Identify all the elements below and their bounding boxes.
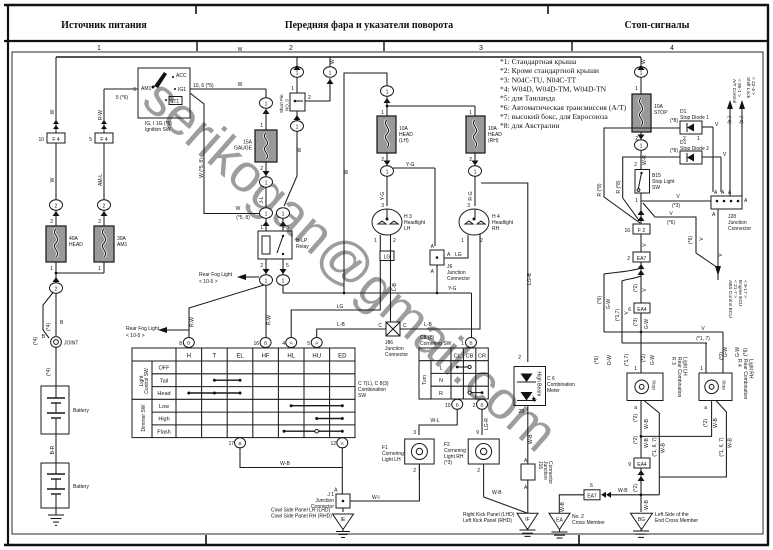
wire EA4 to G-W junction [633,313,650,373]
svg-text:CB: CB [466,354,474,360]
wire W from bus to fuse 1F4 [50,57,59,133]
svg-text:1: 1 [260,123,263,129]
C8 contacts L row [456,365,471,368]
battery 2 [41,463,89,508]
H4 headlight RH feed [467,176,475,209]
LG-B wire to C6 [481,183,533,362]
svg-text:EA: EA [556,518,563,524]
svg-text:STOP: STOP [654,110,668,116]
wire short pin to relay pin3 [284,131,303,206]
stop diode 2 [670,140,727,192]
ground EA no.2 cross member [549,513,605,538]
C8 bottom pin B10 [445,399,463,409]
svg-text:4: 4 [670,45,674,52]
svg-text:2: 2 [518,355,521,361]
svg-text:(*2): (*2) [633,414,639,422]
svg-text:W-B: W-B [528,434,534,444]
drop from bus to node 1 (x297) [291,57,304,77]
svg-text:Rear Fog Light: Rear Fog Light [199,272,233,278]
table bottom pin A12 [330,438,347,448]
svg-text:EA4: EA4 [637,462,647,468]
svg-text:(*6): (*6) [743,348,749,356]
svg-text:2: 2 [381,157,384,163]
svg-text:9: 9 [476,430,479,436]
connector 1F4 (5) [89,133,113,143]
table top pin A4 [282,338,296,348]
svg-text:1: 1 [700,366,703,372]
fuse 10A HEAD (LH) [377,116,413,166]
wire to EA7 [641,234,648,252]
wire from IGN SW AM1 down [98,89,138,133]
svg-text:< 10-5 >: < 10-5 > [126,333,145,339]
svg-text:1: 1 [98,266,101,272]
svg-text:(*1, 6, 7): (*1, 6, 7) [719,437,725,457]
svg-text:A: A [290,341,293,346]
svg-text:GAUGE: GAUGE [234,146,253,152]
watermark serikogan@gmail.com [132,68,568,463]
B15 stop light SW [635,170,675,205]
svg-text:Передняя фара и указатели пово: Передняя фара и указатели поворота [285,20,453,31]
svg-text:L-B: L-B [337,322,345,328]
svg-text:AM-L: AM-L [98,174,104,186]
svg-text:8: 8 [179,341,182,347]
svg-text:HU: HU [312,354,321,360]
svg-text:Y-G: Y-G [406,162,415,168]
svg-text:H: H [187,354,191,360]
svg-text:ACC: ACC [176,73,187,79]
svg-text:Low: Low [159,404,169,410]
svg-text:W: W [297,147,303,152]
svg-text:3: 3 [479,45,483,52]
svg-text:Battery: Battery [73,408,89,414]
svg-text:(*4): (*4) [46,368,52,376]
svg-text:W-L: W-L [430,418,439,424]
svg-text:1: 1 [635,86,638,92]
svg-text:*8: для Австралии: *8: для Австралии [500,121,560,130]
svg-text:ST1: ST1 [170,99,179,105]
svg-text:W-B: W-B [644,419,650,429]
drop from bus to stop fuse [635,57,648,94]
svg-text:1: 1 [640,71,643,77]
svg-text:G-W: G-W [606,299,612,310]
JOINT [51,337,79,348]
svg-text:Стоп-сигналы: Стоп-сигналы [625,20,690,31]
svg-text:1: 1 [265,181,268,187]
svg-text:Head: Head [157,391,170,397]
svg-text:< 22-4 >: < 22-4 > [750,77,756,95]
F1 cornering light LH [382,439,434,480]
svg-text:Short Pin: Short Pin [279,94,284,113]
svg-text:*6: Автоматическая трансмиссия: *6: Автоматическая трансмиссия (А/Т) [500,103,627,112]
svg-text:(*4): (*4) [33,337,39,345]
connector EA7 (bottom) [584,483,659,500]
R4 ground chain to EA4 [640,401,719,438]
svg-text:R 4: R 4 [736,359,742,367]
table top pin A5 [307,338,322,348]
svg-text:ED: ED [338,354,347,360]
svg-text:R: R [439,391,443,397]
svg-text:6: 6 [628,307,631,313]
svg-text:C: C [378,323,382,329]
svg-text:JOINT: JOINT [64,341,78,347]
G-W horizontal to R4 [604,326,729,373]
svg-text:(*3): (*3) [444,460,452,466]
R4 aux ground path [659,401,733,478]
junction connector J6 [430,244,470,282]
wire F1 to J1 connector W-I [350,464,419,501]
svg-text:(*2): (*2) [703,419,709,427]
svg-text:SW: SW [358,393,366,399]
svg-text:3: 3 [381,203,384,209]
svg-text:IF: IF [525,517,529,523]
wire gauge to relay node [259,187,266,208]
svg-text:2: 2 [50,219,53,225]
svg-text:W: W [238,82,243,88]
svg-text:10, 6 (*5): 10, 6 (*5) [193,83,214,89]
svg-text:(*4): (*4) [46,323,52,331]
svg-text:1: 1 [474,170,477,176]
svg-text:(RH): (RH) [488,138,499,144]
svg-text:(*1, 6, 7): (*1, 6, 7) [652,437,658,457]
short pin No.3 [279,77,311,113]
svg-text:R (*8): R (*8) [597,183,603,196]
svg-text:R-W: R-W [190,317,196,327]
svg-text:R-W: R-W [98,110,104,120]
connector EA4 (lower) [628,458,650,512]
table bottom pin B17 [228,438,245,448]
svg-text:SW: SW [652,185,660,191]
svg-text:2: 2 [308,95,311,101]
main down from EA7 [633,262,648,303]
svg-text:1: 1 [697,136,700,142]
svg-text:5: 5 [89,137,92,143]
svg-text:1: 1 [282,279,285,285]
G-W (+6) left loop [597,268,641,332]
wire W from IG1 [190,82,266,98]
svg-text:B: B [238,441,241,446]
svg-text:L-B: L-B [424,322,432,328]
junction connector J1 [311,488,380,513]
F2 cornering light RH [444,439,499,497]
Y-G branch from LH fuse to J6 [393,162,435,246]
svg-text:9: 9 [628,462,631,468]
connector F2 [624,224,650,234]
svg-text:(LH): (LH) [399,138,409,144]
table contacts Low [290,404,344,407]
top border ticks [195,5,197,14]
svg-text:CL: CL [454,354,461,360]
svg-text:(*6): (*6) [688,236,694,244]
node 1 below LH fuse [381,166,394,176]
svg-text:D-W: D-W [607,355,613,365]
svg-text:EL: EL [236,354,244,360]
column number row [196,41,198,51]
R4 rear combination light RH [699,359,754,411]
C8 bottom pin B2 [473,399,488,409]
svg-text:1: 1 [640,144,643,150]
svg-text:(*2): (*2) [633,436,639,444]
svg-text:R (*8): R (*8) [616,180,622,193]
combination SW name [358,381,389,399]
svg-text:Battery: Battery [73,484,89,490]
headlight feed elbow [344,73,387,293]
svg-text:9: 9 [133,87,136,93]
wire B15 down to F2 connector [638,201,645,224]
svg-text:(*3): (*3) [633,318,639,326]
svg-text:1: 1 [296,71,299,77]
V (+1,7) left loop [615,276,641,343]
svg-text:Left Kick Panel (RHD): Left Kick Panel (RHD) [463,518,512,524]
svg-text:Rear Fog Light: Rear Fog Light [126,326,160,332]
wire W-B from B17 to J1 [240,448,342,494]
C8 cornering SW table [419,335,488,399]
svg-text:T: T [213,354,217,360]
connector 1F4 (10) [38,133,65,143]
svg-text:a: a [634,405,637,411]
R (+8) alternate wires from diodes into F2 [597,128,680,223]
svg-text:Y-G: Y-G [448,286,457,292]
svg-text:Dimmer SW: Dimmer SW [141,404,147,431]
svg-text:Light RH: Light RH [748,359,754,379]
svg-text:2: 2 [55,204,58,210]
svg-text:(*2): (*2) [719,352,725,360]
svg-text:10: 10 [38,137,44,143]
svg-text:1: 1 [265,279,268,285]
svg-text:1: 1 [50,266,53,272]
wire relay pin2 to table HF [266,285,273,337]
svg-text:4: 4 [282,341,285,347]
header band [4,20,769,53]
svg-text:W: W [344,169,350,174]
V wire B15 to J28 [641,193,711,209]
fuse 10A HEAD (RH) [466,116,502,166]
svg-text:LG: LG [455,252,462,258]
svg-text:W-B: W-B [661,443,667,453]
svg-text:1: 1 [97,45,101,52]
svg-text:AM1: AM1 [141,86,152,92]
wire EA up to EA7 connector [559,495,585,514]
svg-text:Cornering SW: Cornering SW [420,341,452,347]
svg-text:Stop: Stop [721,380,727,390]
svg-text:< 85-1 >: < 85-1 > [736,79,742,97]
svg-text:Stop: Stop [651,380,657,390]
svg-text:1: 1 [635,198,638,204]
svg-text:LH: LH [404,226,411,232]
node 1 (x330) from short pin side [305,57,337,101]
svg-text:CR: CR [478,354,486,360]
svg-text:F 4: F 4 [52,137,59,143]
R3 rear combination light LH [627,357,688,411]
C8 contacts R row [468,391,483,394]
svg-text:W-B: W-B [713,418,719,428]
svg-text:(*6): (*6) [594,356,600,364]
svg-text:2: 2 [413,468,416,474]
table top pin B8 [179,338,194,348]
svg-text:W-I: W-I [372,495,380,501]
rear fog light pointer upper [199,272,259,285]
svg-text:5: 5 [307,341,310,347]
svg-text:5 (*6): 5 (*6) [116,95,129,101]
svg-text:Relay: Relay [296,244,309,250]
connector EA4 (upper) [628,303,650,313]
V horizontal to R4 [594,343,707,373]
svg-text:HEAD: HEAD [69,242,83,248]
wire W to circle 2 [50,143,56,200]
ground IE cowl side panel [271,508,354,538]
svg-text:Light LH: Light LH [382,457,401,463]
node 1 below RH fuse [469,166,482,176]
svg-text:W: W [50,177,56,182]
table contacts Flash [283,429,344,433]
node 1 gauge top [260,98,273,114]
svg-text:*1: Стандартная крыша: *1: Стандартная крыша [500,57,577,66]
svg-text:R 3: R 3 [670,357,676,365]
svg-text:*2: Кроме стандартной крыши: *2: Кроме стандартной крыши [500,66,599,75]
svg-text:2: 2 [55,287,58,293]
svg-text:Flash: Flash [157,429,170,435]
svg-text:Meter: Meter [547,388,560,394]
table contacts High [315,417,344,420]
svg-text:Connector: Connector [385,352,408,358]
svg-text:*3: N04C-TU, N04C-TT: *3: N04C-TU, N04C-TT [500,75,577,84]
ground BG end cross member [631,512,699,537]
svg-text:1: 1 [386,90,389,96]
svg-text:(*6): (*6) [726,116,732,124]
svg-text:28: 28 [518,409,524,415]
svg-text:End Cross Member: End Cross Member [655,518,698,524]
svg-text:1: 1 [296,125,299,131]
svg-text:16: 16 [253,341,259,347]
svg-text:3: 3 [413,430,416,436]
svg-text:Connector: Connector [447,276,470,282]
svg-text:(*6): (*6) [738,116,744,124]
svg-text:(*8): (*8) [670,148,678,154]
svg-text:1: 1 [461,341,464,347]
svg-text:F 4: F 4 [100,137,107,143]
svg-text:G-W: G-W [650,355,656,366]
ground IF right kick panel [463,512,538,536]
svg-text:Tail: Tail [160,378,168,384]
wire relay pin5 to Y-G line [283,286,344,294]
wire LG-R from B2 to F2 [476,409,490,436]
H4 headlight RH [459,209,514,244]
nodes above relay [260,208,273,231]
svg-text:Ignition SW: Ignition SW [145,127,171,133]
wire B-R [50,434,56,463]
svg-text:L-B: L-B [392,282,398,290]
svg-text:Light LH: Light LH [682,357,688,376]
svg-text:< 10-5 >: < 10-5 > [199,279,218,285]
G-W far right labels [735,347,749,358]
svg-text:1: 1 [461,238,464,244]
node 1 headlight feed [381,86,394,106]
node 2b [98,200,111,216]
node 2 [50,200,63,216]
svg-text:10: 10 [445,403,451,409]
table contacts Tail [213,379,242,382]
ground battery [48,508,64,526]
svg-text:2: 2 [260,263,263,269]
svg-text:B: B [480,402,483,407]
svg-text:(*6): (*6) [597,296,603,304]
wire LG from A4 to H3 [291,235,394,338]
fuse 40A HEAD [46,210,83,273]
wire W-B F2 to ground IF [484,490,527,513]
node below short pin [291,111,304,131]
shift lock / AT control arrows [726,77,756,196]
svg-text:Stop Diode 1: Stop Diode 1 [680,115,709,121]
svg-text:W-B: W-B [492,490,502,496]
svg-text:NO. 3: NO. 3 [285,99,290,111]
table top pin B16 [253,338,271,348]
fork wires to JOINT [33,293,64,346]
svg-text:B: B [456,402,459,407]
node below stop fuse [635,135,648,151]
svg-text:Connector: Connector [547,461,553,484]
svg-text:HF: HF [262,354,270,360]
svg-text:LG-B: LG-B [527,273,533,285]
svg-text:IE: IE [341,517,346,523]
svg-text:1: 1 [291,86,294,92]
bottom border ticks [205,535,207,545]
split to both headlight fuses [381,105,475,116]
svg-text:G-W: G-W [735,347,741,358]
svg-text:W: W [641,59,647,64]
battery 1 [41,386,89,434]
svg-text:1: 1 [634,366,637,372]
svg-text:W-R: W-R [642,155,648,165]
svg-text:1: 1 [282,212,285,218]
svg-text:B-R: B-R [50,445,56,454]
svg-text:(*5, 8): (*5, 8) [236,215,250,221]
svg-text:1: 1 [469,110,472,116]
svg-text:3: 3 [467,203,470,209]
svg-text:J-L: J-L [259,196,265,203]
svg-text:(*6): (*6) [667,220,675,226]
J28 to ABS ECU arrow [715,209,748,318]
svg-text:LG: LG [337,304,344,310]
svg-text:Cross Member: Cross Member [572,520,605,526]
nodes below relay [260,259,273,285]
svg-text:(*3): (*3) [672,203,680,209]
svg-text:5: 5 [286,263,289,269]
svg-text:C: C [403,323,407,329]
svg-text:*7: высокий бокс, для Евросоюз: *7: высокий бокс, для Евросоюза [500,112,608,121]
svg-text:EA7: EA7 [637,256,647,262]
svg-text:Rear Combination: Rear Combination [676,357,682,398]
svg-text:16: 16 [624,228,630,234]
svg-text:W: W [238,47,243,53]
svg-text:*4: W04D, W04D-TM, W04D-TN: *4: W04D, W04D-TM, W04D-TN [500,85,607,94]
svg-text:W-B: W-B [728,438,734,448]
svg-text:2: 2 [289,45,293,52]
wire to B15 and diode branches [634,150,648,170]
svg-text:W-B: W-B [560,502,566,512]
svg-text:1: 1 [265,212,268,218]
svg-text:2: 2 [103,204,106,210]
svg-text:6: 6 [590,483,593,489]
svg-text:EA7: EA7 [587,493,597,499]
svg-text:(*1,7): (*1,7) [615,309,621,322]
svg-text:(*1,7): (*1,7) [624,354,630,367]
svg-text:LG-R: LG-R [484,418,490,430]
svg-text:< 9-17 >: < 9-17 > [742,280,748,298]
svg-text:2: 2 [473,403,476,409]
junction of battery feeds [53,272,105,283]
ignition switch U [133,68,190,133]
svg-text:1: 1 [265,102,268,108]
C6 combination meter [514,367,575,465]
